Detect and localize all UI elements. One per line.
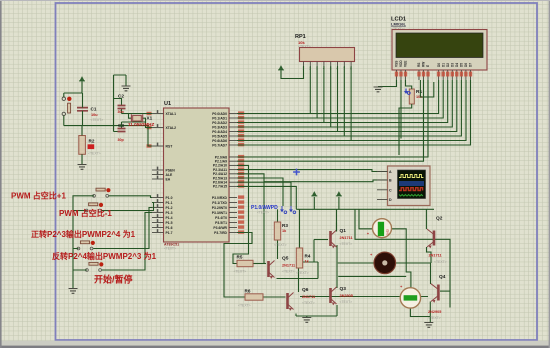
svg-text:P3.6/WR: P3.6/WR [213,226,227,230]
svg-text:D2: D2 [446,63,450,67]
svg-text:P1.5: P1.5 [166,221,173,225]
svg-text:C: C [389,188,392,192]
svg-text:VEE: VEE [404,61,408,67]
svg-text:PWM 占空比-1: PWM 占空比-1 [59,208,112,218]
svg-text:D7: D7 [469,63,473,67]
svg-text:<TEXT>: <TEXT> [91,118,104,122]
svg-text:P1.0: P1.0 [166,196,173,200]
svg-text:A: A [389,170,392,174]
svg-text:P0.6/AD6: P0.6/AD6 [212,139,227,143]
svg-text:LM016L: LM016L [391,21,406,26]
svg-text:D5: D5 [460,63,464,67]
svg-text:P1.2: P1.2 [166,206,173,210]
svg-text:P3.1/TXD: P3.1/TXD [212,201,227,205]
svg-text:RST: RST [166,144,174,148]
svg-text:PSEN: PSEN [166,168,176,172]
svg-text:XTAL2: XTAL2 [166,126,177,130]
svg-text:P1.4: P1.4 [166,216,173,220]
svg-text:11.0592MHZ: 11.0592MHZ [128,122,154,127]
svg-text:<TEXT>: <TEXT> [238,304,251,308]
svg-text:<TEXT>: <TEXT> [296,271,309,275]
svg-text:D: D [389,198,392,202]
svg-text:P3.3/INT1: P3.3/INT1 [212,211,227,215]
svg-text:P3.4/T0: P3.4/T0 [215,216,227,220]
svg-text:P3.2/INT0: P3.2/INT0 [212,206,227,210]
svg-text:R6: R6 [245,289,251,294]
svg-text:E: E [426,65,430,67]
svg-text:0.02: 0.02 [386,229,390,235]
svg-text:P0.1/AD1: P0.1/AD1 [212,116,227,120]
svg-text:C1: C1 [91,107,97,112]
svg-text:P0.3/AD3: P0.3/AD3 [212,125,227,129]
svg-text:2N2905: 2N2905 [428,310,441,314]
svg-text:VDD: VDD [399,60,403,67]
svg-text:Q5: Q5 [282,256,289,262]
svg-text:X1: X1 [147,116,153,121]
svg-text:P0.4/AD4: P0.4/AD4 [212,130,227,134]
svg-text:VSS: VSS [395,61,399,67]
svg-text:Q4: Q4 [439,274,446,280]
svg-text:P0.5/AD5: P0.5/AD5 [212,134,227,138]
svg-text:D0: D0 [437,63,441,67]
svg-text:<TEXT>: <TEXT> [282,270,295,274]
svg-text:P0.0/AD0: P0.0/AD0 [212,112,227,116]
svg-text:2N1711: 2N1711 [340,236,353,240]
svg-text:<TEXT>: <TEXT> [164,247,176,251]
svg-text:<TEXT>: <TEXT> [88,152,101,156]
svg-text:P3.0/RXD: P3.0/RXD [212,196,228,200]
svg-text:D4: D4 [455,63,459,67]
svg-text:P1.3: P1.3 [166,211,173,215]
svg-text:P2.7/A15: P2.7/A15 [213,185,227,189]
svg-text:2N2905: 2N2905 [340,294,353,298]
svg-text:P0.7/AD7: P0.7/AD7 [212,143,227,147]
svg-text:R3: R3 [282,223,288,228]
svg-text:EA: EA [166,177,171,181]
svg-text:2N1711: 2N1711 [429,254,442,258]
svg-text:P3.7/RD: P3.7/RD [214,231,227,235]
svg-text:XTAL1: XTAL1 [166,112,177,116]
svg-text:PWM 占空比+1: PWM 占空比+1 [11,191,66,201]
svg-text:<TEXT>: <TEXT> [434,260,447,264]
svg-text:开始/暂停: 开始/暂停 [94,274,133,285]
svg-text:Q2: Q2 [436,216,443,222]
svg-text:P0.2/AD2: P0.2/AD2 [212,121,227,125]
svg-text:R4: R4 [305,254,311,259]
svg-text:<TEXT>: <TEXT> [257,211,269,215]
svg-text:10u: 10u [91,113,98,117]
svg-text:RW: RW [422,62,426,67]
svg-text:<TEXT>: <TEXT> [428,316,441,320]
svg-text:<TEXT>: <TEXT> [340,242,353,246]
svg-text:P3.5/T1: P3.5/T1 [215,221,227,225]
svg-text:ALE: ALE [166,173,174,177]
svg-text:P1.7: P1.7 [166,231,173,235]
svg-text:Q1: Q1 [340,228,347,234]
svg-text:R5: R5 [237,255,243,260]
svg-text:P1.1: P1.1 [166,201,173,205]
svg-text:R2: R2 [89,139,95,144]
svg-text:P1.6: P1.6 [166,226,173,230]
svg-text:D6: D6 [464,63,468,67]
svg-text:RS: RS [417,63,421,67]
svg-text:2N1711: 2N1711 [282,264,295,268]
svg-text:<TEXT>: <TEXT> [302,301,315,305]
svg-text:Q6: Q6 [302,287,309,293]
svg-text:正转P2^3输出PWMP2^4 为1: 正转P2^3输出PWMP2^4 为1 [31,229,136,239]
svg-text:30p: 30p [118,138,125,142]
svg-text:<TEXT>: <TEXT> [340,300,353,304]
svg-text:C2: C2 [118,94,124,99]
svg-text:U1: U1 [164,101,171,107]
svg-text:B: B [389,179,392,183]
svg-text:2N1711: 2N1711 [302,295,315,299]
svg-text:<TEXT>: <TEXT> [234,270,247,274]
svg-text:<TEXT>: <TEXT> [274,243,287,247]
svg-text:Q3: Q3 [340,286,347,292]
svg-text:D1: D1 [441,63,445,67]
svg-text:D3: D3 [451,63,455,67]
svg-text:反转P2^4输出PWMP2^3 为1: 反转P2^4输出PWMP2^3 为1 [52,251,157,261]
